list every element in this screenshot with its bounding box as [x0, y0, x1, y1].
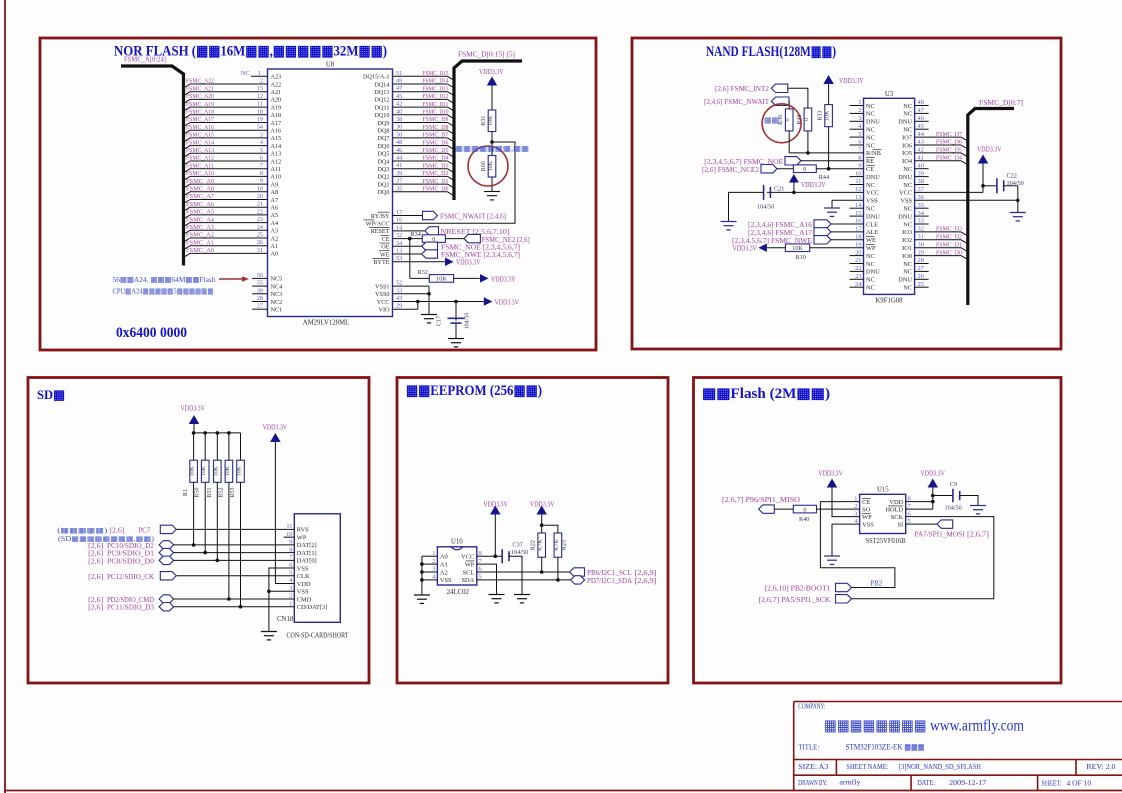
svg-text:NC: NC: [903, 166, 912, 173]
svg-text:10: 10: [855, 170, 861, 177]
svg-text:[2,6]: [2,6]: [88, 597, 103, 604]
svg-text:FSMC_A0: FSMC_A0: [186, 247, 215, 254]
svg-text:37: 37: [396, 178, 402, 185]
svg-text:SCK: SCK: [891, 514, 904, 521]
svg-text:IO3: IO3: [902, 229, 912, 236]
svg-text:R51: R51: [207, 487, 213, 497]
svg-text:DAT[0]: DAT[0]: [297, 558, 317, 565]
svg-text:A1: A1: [271, 243, 279, 250]
svg-text:VCC: VCC: [377, 299, 390, 306]
svg-text:49: 49: [396, 78, 402, 85]
svg-text:WP: WP: [866, 245, 876, 252]
svg-text:A2: A2: [271, 235, 279, 242]
svg-text:DAT[2]: DAT[2]: [297, 542, 317, 549]
svg-text:10K: 10K: [792, 245, 803, 252]
svg-text:FSMC_A12: FSMC_A12: [186, 155, 214, 162]
svg-text:DQ1: DQ1: [377, 181, 389, 188]
svg-text:A11: A11: [271, 166, 281, 173]
svg-text:6: 6: [260, 155, 263, 162]
svg-text:NC: NC: [903, 103, 912, 110]
svg-text:A0: A0: [271, 251, 279, 258]
svg-text:VDD3.3V: VDD3.3V: [920, 471, 945, 478]
svg-text:U8: U8: [326, 62, 335, 69]
svg-text:19: 19: [257, 116, 263, 123]
svg-text:FSMC_A10: FSMC_A10: [186, 170, 215, 177]
svg-text:WE: WE: [380, 251, 390, 258]
svg-text:20: 20: [855, 249, 861, 256]
svg-text:FSMC_A1: FSMC_A1: [186, 239, 214, 246]
svg-text:FSMC_D12: FSMC_D12: [423, 93, 449, 100]
svg-text:17: 17: [396, 209, 402, 216]
svg-text:NC: NC: [903, 111, 912, 118]
svg-text:R44: R44: [819, 174, 829, 181]
svg-text:DNU: DNU: [866, 174, 880, 181]
svg-text:CD/DAT[3]: CD/DAT[3]: [297, 604, 328, 611]
svg-text:13: 13: [396, 248, 402, 255]
svg-text:RVS: RVS: [297, 527, 309, 534]
svg-text:(▦▦▦▦▦): (▦▦▦▦▦): [57, 526, 108, 534]
svg-text:▦▦▦▦▦▦▦▦ www.armfly.com: ▦▦▦▦▦▦▦▦ www.armfly.com: [824, 718, 1024, 735]
svg-text:10K: 10K: [201, 465, 207, 476]
svg-text:35: 35: [396, 185, 402, 192]
svg-text:DQ5: DQ5: [377, 151, 389, 158]
svg-text:FSMC_A14: FSMC_A14: [186, 139, 215, 146]
svg-text:PC8/SDIO_D0: PC8/SDIO_D0: [107, 558, 155, 565]
svg-text:VDD3.3V: VDD3.3V: [263, 424, 288, 431]
svg-text:BYTE: BYTE: [373, 259, 389, 266]
svg-text:NC: NC: [866, 285, 875, 292]
svg-text:11: 11: [855, 178, 861, 185]
svg-text:FSMC_D8: FSMC_D8: [423, 124, 450, 131]
svg-text:[2,6]: [2,6]: [88, 558, 103, 565]
svg-text:[2,6,10] PB2/BOOT1: [2,6,10] PB2/BOOT1: [765, 586, 831, 593]
svg-text:NC: NC: [866, 127, 875, 134]
svg-text:▦▦EEPROM (256▦▦): ▦▦EEPROM (256▦▦): [406, 383, 542, 399]
svg-text:[2,6] FSMC_INT2: [2,6] FSMC_INT2: [715, 86, 770, 93]
svg-text:IO7: IO7: [902, 134, 913, 141]
svg-text:R60: R60: [481, 161, 487, 171]
svg-text:PC7: PC7: [138, 527, 151, 534]
svg-text:[2,6]: [2,6]: [109, 527, 124, 534]
svg-text:1: 1: [432, 550, 435, 557]
svg-text:[2,6]: [2,6]: [88, 543, 103, 550]
svg-text:VDD3.3V: VDD3.3V: [479, 69, 504, 76]
svg-text:DQ9: DQ9: [377, 120, 389, 127]
svg-text:FSMC_D1: FSMC_D1: [423, 178, 449, 185]
svg-text:FSMC_A8: FSMC_A8: [186, 186, 215, 193]
svg-text:FSMC_D[0:15] [5]: FSMC_D[0:15] [5]: [458, 51, 515, 59]
svg-text:VDD3.3V: VDD3.3V: [456, 260, 481, 267]
svg-text:10K: 10K: [436, 276, 447, 283]
svg-text:[3]NOR_NAND_SD_SFLASH: [3]NOR_NAND_SD_SFLASH: [899, 762, 981, 771]
svg-text:7: 7: [260, 162, 263, 169]
svg-text:DQ0: DQ0: [377, 189, 389, 196]
svg-text:21: 21: [855, 257, 861, 264]
svg-text:24: 24: [855, 281, 862, 288]
svg-text:44: 44: [396, 155, 402, 162]
svg-text:R52: R52: [218, 487, 224, 497]
svg-text:CE: CE: [862, 499, 870, 506]
svg-text:32: 32: [396, 232, 402, 239]
svg-text:FSMC_A20: FSMC_A20: [186, 93, 215, 100]
svg-text:VSS: VSS: [297, 589, 309, 596]
svg-text:[2,3,4,6] FSMC_A17: [2,3,4,6] FSMC_A17: [748, 230, 813, 237]
svg-text:AM29LV128ML: AM29LV128ML: [303, 320, 350, 327]
svg-text:56▦▦A24, ▦▦▦64M▦▦Flash: 56▦▦A24, ▦▦▦64M▦▦Flash: [113, 275, 216, 284]
svg-text:DQ3: DQ3: [377, 166, 389, 173]
svg-text:PB2: PB2: [870, 580, 883, 587]
svg-text:NC: NC: [866, 142, 875, 149]
svg-text:28: 28: [257, 295, 263, 302]
svg-text:PD2/SDIO_CMD: PD2/SDIO_CMD: [107, 597, 154, 604]
svg-text:FSMC_A13: FSMC_A13: [186, 147, 215, 154]
svg-text:DQ8: DQ8: [377, 128, 389, 135]
svg-text:R40: R40: [799, 516, 809, 523]
svg-text:VDD3.3V: VDD3.3V: [530, 502, 555, 509]
svg-text:FSMC_A15: FSMC_A15: [186, 132, 215, 139]
svg-text:NC5: NC5: [271, 276, 283, 283]
svg-text:[2,6,9]: [2,6,9]: [635, 578, 657, 585]
svg-text:VCC: VCC: [866, 190, 879, 197]
svg-text:104/50: 104/50: [465, 313, 471, 330]
svg-text:35: 35: [918, 202, 924, 209]
svg-text:R23: R23: [561, 540, 567, 550]
svg-text:8: 8: [260, 170, 263, 177]
svg-text:NC2: NC2: [271, 299, 283, 306]
svg-text:C9: C9: [950, 481, 957, 488]
svg-text:SST25VF016B: SST25VF016B: [866, 538, 906, 545]
svg-text:NAND FLASH(128M▦▦): NAND FLASH(128M▦▦): [706, 44, 836, 60]
svg-text:HOLD: HOLD: [885, 506, 903, 513]
svg-text:SHEET NAME:: SHEET NAME:: [846, 762, 888, 771]
svg-text:RE: RE: [866, 158, 874, 165]
svg-text:RY/BY: RY/BY: [371, 213, 390, 220]
svg-text:K9F1G08: K9F1G08: [875, 298, 903, 305]
svg-text:43: 43: [396, 295, 402, 302]
svg-text:A17: A17: [271, 120, 282, 127]
svg-text:NC: NC: [241, 70, 250, 77]
svg-text:A2: A2: [440, 569, 448, 576]
svg-text:FSMC_A4: FSMC_A4: [186, 216, 215, 223]
svg-text:[2,4,6] FSMC_NWAIT: [2,4,6] FSMC_NWAIT: [704, 99, 770, 106]
svg-text:10K: 10K: [213, 465, 219, 476]
svg-text:15: 15: [855, 210, 861, 217]
svg-text:FSMC_D10: FSMC_D10: [423, 109, 450, 116]
svg-text:53: 53: [396, 255, 402, 262]
svg-text:DNU: DNU: [898, 213, 912, 220]
svg-text:NC: NC: [903, 206, 912, 213]
svg-text:11: 11: [257, 101, 263, 108]
svg-text:20: 20: [257, 193, 263, 200]
svg-text:A19: A19: [271, 104, 282, 111]
svg-text:R36: R36: [778, 115, 784, 125]
svg-text:4.7K: 4.7K: [538, 539, 544, 552]
svg-text:R53: R53: [230, 487, 236, 497]
svg-text:25: 25: [918, 281, 924, 288]
svg-text:NC: NC: [866, 134, 875, 141]
svg-text:NC: NC: [903, 127, 912, 134]
svg-text:3: 3: [858, 115, 861, 122]
svg-text:VDD3.3V: VDD3.3V: [839, 78, 864, 85]
svg-text:A14: A14: [271, 143, 282, 150]
svg-text:DNU: DNU: [866, 213, 880, 220]
svg-text:IO4: IO4: [902, 158, 913, 165]
svg-text:39: 39: [918, 170, 924, 177]
svg-text:18: 18: [257, 108, 263, 115]
svg-text:VDD3.3V: VDD3.3V: [180, 406, 205, 413]
svg-text:VDD3.3V: VDD3.3V: [801, 182, 826, 189]
svg-text:VSS1: VSS1: [375, 283, 389, 290]
svg-text:DNU: DNU: [898, 277, 912, 284]
svg-text:DQ6: DQ6: [377, 143, 389, 150]
svg-text:A16: A16: [271, 128, 282, 135]
svg-text:VDD3.3V: VDD3.3V: [483, 502, 508, 509]
svg-text:R31: R31: [481, 116, 487, 126]
svg-text:2: 2: [432, 558, 435, 565]
svg-text:IO5: IO5: [902, 150, 912, 157]
svg-text:VSS: VSS: [440, 577, 452, 584]
svg-text:9: 9: [260, 178, 263, 185]
svg-text:10K: 10K: [488, 115, 494, 126]
svg-text:[2,6]: [2,6]: [88, 574, 103, 581]
svg-text:CPU▦A24▦▦▦▦▦5▦▦▦▦▦▦: CPU▦A24▦▦▦▦▦5▦▦▦▦▦▦: [113, 287, 214, 296]
svg-text:A4: A4: [271, 220, 279, 227]
svg-text:26: 26: [918, 273, 924, 280]
svg-text:▦▦: ▦▦: [764, 115, 779, 124]
svg-text:FSMC_A17: FSMC_A17: [186, 116, 215, 123]
svg-text:SO: SO: [862, 506, 871, 513]
svg-text:NC: NC: [903, 285, 912, 292]
svg-text:23: 23: [257, 216, 263, 223]
svg-text:IO1: IO1: [902, 245, 912, 252]
svg-text:SCL: SCL: [463, 569, 475, 576]
svg-text:WP/ACC: WP/ACC: [366, 221, 390, 228]
svg-text:PC11/SDIO_D3: PC11/SDIO_D3: [107, 605, 155, 612]
svg-text:NC: NC: [866, 206, 875, 213]
svg-text:FSMC_D7: FSMC_D7: [423, 132, 450, 139]
svg-text:FSMC_A7: FSMC_A7: [186, 193, 215, 200]
svg-text:FSMC_D0: FSMC_D0: [423, 186, 450, 193]
svg-text:FSMC_A19: FSMC_A19: [186, 101, 215, 108]
svg-text:25: 25: [257, 232, 263, 239]
svg-text:SDA: SDA: [462, 577, 475, 584]
svg-text:A0: A0: [440, 554, 448, 561]
svg-text:FSMC_D[0:7]: FSMC_D[0:7]: [979, 99, 1023, 107]
svg-text:PB6/I2C1_SCL: PB6/I2C1_SCL: [587, 570, 632, 577]
svg-text:VDD3.3V: VDD3.3V: [977, 147, 1002, 154]
svg-text:3: 3: [260, 131, 263, 138]
svg-text:SI: SI: [898, 521, 904, 528]
svg-text:24: 24: [257, 224, 263, 231]
svg-text:NC1: NC1: [271, 307, 283, 314]
svg-text:14: 14: [855, 202, 862, 209]
svg-text:PC10/SDIO_D2: PC10/SDIO_D2: [107, 543, 155, 550]
svg-text:104/50: 104/50: [757, 204, 774, 211]
svg-text:VSS: VSS: [297, 565, 309, 572]
svg-text:56: 56: [257, 272, 263, 279]
svg-text:CE: CE: [382, 236, 390, 243]
svg-text:CLE: CLE: [866, 221, 878, 228]
svg-text:▦▦Flash (2M▦▦): ▦▦Flash (2M▦▦): [702, 386, 830, 402]
svg-text:FSMC_D0: FSMC_D0: [936, 249, 963, 256]
svg-text:10K: 10K: [225, 465, 231, 476]
svg-text:IO6: IO6: [902, 142, 912, 149]
svg-text:FSMC_D6: FSMC_D6: [936, 139, 963, 146]
svg-text:R33: R33: [818, 111, 824, 121]
svg-text:VDD3.3V: VDD3.3V: [818, 471, 843, 478]
svg-text:DQ13: DQ13: [374, 89, 389, 96]
svg-text:C17: C17: [437, 316, 443, 326]
svg-text:A21: A21: [271, 89, 282, 96]
svg-text:SIZE: A3: SIZE: A3: [798, 762, 828, 771]
svg-text:R10: R10: [796, 254, 806, 261]
svg-text:39: 39: [257, 287, 263, 294]
svg-text:48: 48: [396, 139, 402, 146]
svg-text:SHEET:: SHEET:: [1042, 779, 1062, 788]
svg-text:DQ11: DQ11: [375, 104, 390, 111]
svg-text:FSMC_D7: FSMC_D7: [936, 131, 963, 138]
svg-text:CN18: CN18: [277, 616, 294, 623]
svg-text:45: 45: [918, 123, 924, 130]
svg-text:A23: A23: [271, 74, 282, 81]
svg-text:54: 54: [257, 124, 263, 131]
svg-text:COMPANY:: COMPANY:: [798, 703, 825, 711]
svg-text:FSMC_D3: FSMC_D3: [423, 162, 450, 169]
svg-text:FSMC_D4: FSMC_D4: [936, 155, 963, 162]
svg-text:R1: R1: [183, 489, 189, 496]
svg-text:ALE: ALE: [866, 229, 879, 236]
svg-text:0: 0: [803, 506, 806, 513]
svg-text:FSMC_A18: FSMC_A18: [186, 109, 215, 116]
svg-text:FSMC_D4: FSMC_D4: [423, 155, 450, 162]
svg-text:104/50: 104/50: [945, 505, 962, 512]
svg-text:DAT[1]: DAT[1]: [297, 550, 317, 557]
svg-text:[2,6] FSMC_NCE2: [2,6] FSMC_NCE2: [702, 167, 760, 174]
svg-text:VDD: VDD: [889, 499, 903, 506]
svg-text:[2,6,7]: [2,6,7]: [967, 532, 989, 539]
svg-text:FSMC_A16: FSMC_A16: [186, 124, 215, 131]
svg-text:NC: NC: [866, 103, 875, 110]
svg-text:24LC02: 24LC02: [447, 589, 470, 596]
svg-text:34: 34: [396, 240, 402, 247]
svg-text:104/50: 104/50: [1007, 180, 1024, 187]
svg-text:47: 47: [396, 85, 402, 92]
svg-text:A6: A6: [271, 205, 279, 212]
svg-text:DNU: DNU: [898, 174, 912, 181]
svg-text:VSS: VSS: [866, 198, 878, 205]
svg-text:U10: U10: [451, 539, 463, 546]
svg-text:48: 48: [918, 99, 924, 106]
svg-text:PD7/I2C1_SDA: PD7/I2C1_SDA: [587, 578, 632, 585]
svg-text:NC4: NC4: [271, 283, 283, 290]
svg-text:VCC: VCC: [461, 554, 474, 561]
svg-text:FSMC_D2: FSMC_D2: [423, 170, 449, 177]
svg-text:52: 52: [396, 280, 402, 287]
svg-text:U3: U3: [885, 91, 894, 98]
svg-text:38: 38: [396, 116, 402, 123]
svg-text:40: 40: [918, 162, 924, 169]
svg-text:FSMC_A11: FSMC_A11: [186, 162, 214, 169]
svg-text:A12: A12: [271, 158, 282, 165]
svg-text:(SD▦▦▦▦▦▦▦▦,▦▦): (SD▦▦▦▦▦▦▦▦,▦▦): [58, 535, 155, 543]
svg-text:FSMC_A5: FSMC_A5: [186, 209, 215, 216]
svg-text:15: 15: [257, 85, 263, 92]
svg-text:12: 12: [257, 93, 263, 100]
svg-text:0: 0: [804, 118, 810, 121]
svg-text:10K: 10K: [488, 160, 494, 171]
svg-text:0: 0: [785, 118, 791, 121]
svg-text:A22: A22: [271, 81, 282, 88]
svg-text:VDD3.3V: VDD3.3V: [491, 276, 516, 283]
svg-text:NC: NC: [903, 221, 912, 228]
svg-text:FSMC_D1: FSMC_D1: [936, 241, 962, 248]
svg-text:DNU: DNU: [866, 119, 880, 126]
svg-text:R22: R22: [531, 540, 537, 550]
svg-text:26: 26: [257, 239, 263, 246]
svg-text:OE: OE: [381, 244, 389, 251]
svg-text:A20: A20: [271, 97, 282, 104]
svg-text:PC12/SDIO_CK: PC12/SDIO_CK: [107, 574, 154, 581]
svg-text:VDD3.3V: VDD3.3V: [733, 246, 758, 253]
svg-text:WP: WP: [297, 534, 307, 541]
svg-text:FSMC_A6: FSMC_A6: [186, 201, 215, 208]
svg-text:NC: NC: [866, 261, 875, 268]
svg-text:4: 4: [260, 139, 263, 146]
svg-text:FSMC_D13: FSMC_D13: [423, 85, 450, 92]
svg-text:22: 22: [257, 208, 263, 215]
svg-text:41: 41: [396, 162, 402, 169]
svg-text:VDD: VDD: [297, 581, 311, 588]
svg-text:IO2: IO2: [902, 237, 912, 244]
svg-text:2: 2: [260, 78, 263, 85]
svg-text:WP: WP: [465, 561, 475, 568]
svg-text:[2,6,7] P96/SPI1_MISO: [2,6,7] P96/SPI1_MISO: [722, 497, 800, 504]
svg-text:A5: A5: [271, 212, 279, 219]
svg-text:0x6400 0000: 0x6400 0000: [116, 325, 187, 341]
svg-text:VCC: VCC: [899, 190, 912, 197]
svg-text:10K: 10K: [825, 110, 831, 121]
svg-text:A9: A9: [271, 181, 279, 188]
svg-text:1: 1: [258, 70, 261, 77]
svg-text:55: 55: [257, 280, 263, 287]
svg-text:[2,6]: [2,6]: [88, 551, 103, 558]
svg-text:5: 5: [858, 131, 861, 138]
svg-text:40: 40: [396, 108, 402, 115]
svg-text:R34: R34: [410, 231, 420, 238]
svg-text:FSMC_A21: FSMC_A21: [186, 85, 214, 92]
svg-text:NC: NC: [866, 111, 875, 118]
svg-text:A3: A3: [271, 228, 279, 235]
svg-text:U15: U15: [877, 487, 889, 494]
svg-text:5: 5: [260, 147, 263, 154]
svg-text:armfly: armfly: [839, 778, 860, 787]
svg-text:VIO: VIO: [379, 307, 391, 314]
svg-text:IO0: IO0: [902, 253, 912, 260]
svg-text:VDD3.3V: VDD3.3V: [495, 299, 520, 306]
svg-text:27: 27: [918, 265, 925, 272]
svg-text:FSMC_D11: FSMC_D11: [423, 101, 449, 108]
svg-text:21: 21: [257, 201, 263, 208]
svg-text:CE: CE: [866, 166, 874, 173]
svg-text:A13: A13: [271, 151, 282, 158]
svg-text:A1: A1: [440, 561, 448, 568]
svg-text:10: 10: [257, 185, 263, 192]
svg-text:0: 0: [803, 166, 806, 173]
svg-text:FSMC_D14: FSMC_D14: [423, 78, 450, 85]
svg-text:FSMC_D2: FSMC_D2: [936, 234, 962, 241]
svg-text:CLK: CLK: [297, 573, 310, 580]
svg-text:FSMC_D6: FSMC_D6: [423, 139, 450, 146]
